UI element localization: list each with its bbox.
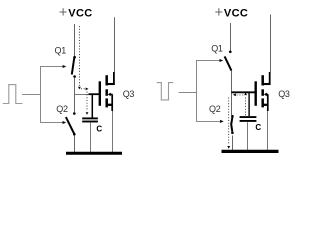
svg-text:C: C [255, 123, 261, 132]
svg-text:Q1: Q1 [211, 43, 223, 53]
svg-text:+: + [59, 5, 67, 21]
svg-text:Q3: Q3 [123, 89, 135, 99]
svg-text:Q2: Q2 [56, 104, 68, 114]
svg-text:Q3: Q3 [278, 89, 290, 99]
svg-text:VCC: VCC [68, 8, 92, 20]
svg-text:+: + [215, 5, 223, 21]
svg-text:Q2: Q2 [209, 104, 221, 114]
svg-text:C: C [96, 125, 102, 134]
svg-text:Q1: Q1 [55, 46, 67, 56]
svg-text:VCC: VCC [224, 8, 248, 20]
